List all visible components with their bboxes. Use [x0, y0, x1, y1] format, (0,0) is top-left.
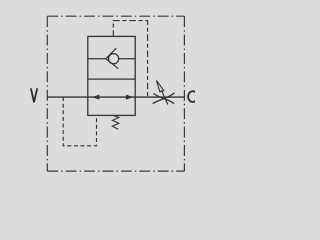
spring — [112, 116, 119, 130]
check valve (upper section) — [88, 48, 135, 68]
wire: check valve inlet — [88, 58, 106, 60]
adjustment arrow head — [156, 80, 164, 92]
section divider line — [88, 78, 135, 80]
valve body — [88, 36, 135, 115]
adjustment arrow shaft — [161, 90, 167, 104]
check valve poppet ball — [109, 54, 119, 64]
port C label — [188, 91, 195, 102]
restrictor arc 1 — [153, 93, 174, 103]
pilot line (top): valve top to throttle branch — [113, 21, 147, 97]
flow arrow left (compensator section) — [92, 95, 100, 100]
adjustable throttle (variable restrictor) — [153, 80, 175, 104]
flow arrow right (compensator section) — [126, 95, 134, 100]
wire: check valve outlet — [119, 58, 136, 60]
check valve seat — [106, 48, 118, 68]
restrictor arc 2 — [153, 93, 175, 104]
border bottom edge — [47, 170, 184, 172]
main flow line from port V to port C — [47, 96, 184, 98]
enclosure border (dash-dot envelope) — [47, 16, 184, 171]
border top edge — [47, 15, 184, 17]
border right edge — [183, 16, 185, 171]
port V label — [31, 88, 37, 102]
pilot line (bottom): main line to spring chamber — [63, 97, 96, 146]
border left edge — [46, 16, 48, 171]
